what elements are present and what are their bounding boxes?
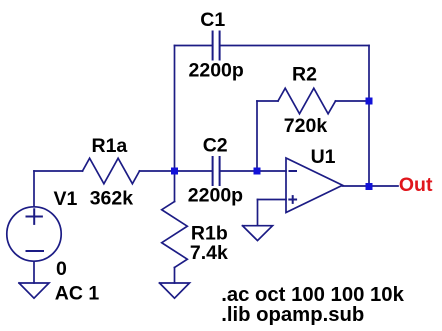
wire R1b bottom lead xyxy=(174,268,176,284)
wire C1 row left xyxy=(175,45,213,47)
ground below R1b xyxy=(160,283,190,298)
svg-text:0: 0 xyxy=(56,258,67,280)
svg-text:C1: C1 xyxy=(200,9,225,31)
wire main row R1a to C2 xyxy=(140,170,213,172)
wire R1b top lead xyxy=(174,171,176,202)
wire left vertical branch to C1 xyxy=(174,46,176,172)
op-amp U1 xyxy=(286,158,343,213)
svg-text:362k: 362k xyxy=(90,188,134,210)
wire R2 row left lead xyxy=(257,100,278,102)
svg-text:U1: U1 xyxy=(311,146,336,168)
svg-text:.ac oct 100 100 10k: .ac oct 100 100 10k xyxy=(221,284,404,306)
svg-text:720k: 720k xyxy=(284,115,328,137)
ground below V1 xyxy=(19,283,49,298)
capacitor C2 xyxy=(213,157,220,185)
node junction J1 (R1a/C1/C2/R1b) xyxy=(171,168,178,175)
wire V1 bottom lead xyxy=(33,262,35,284)
wire right vertical from C1 to output xyxy=(368,46,370,187)
wire R2 row right lead xyxy=(336,100,370,102)
op-amp plus pin mark xyxy=(289,196,296,203)
svg-text:2200p: 2200p xyxy=(188,184,243,206)
node junction J4 (output) xyxy=(366,183,373,190)
V1 minus mark xyxy=(27,250,44,252)
wire op-amp plus input vertical to ground xyxy=(257,200,259,226)
V1 plus mark xyxy=(27,209,42,224)
node junction J3 (R2/right vertical) xyxy=(366,98,373,105)
op-amp minus pin mark xyxy=(290,170,297,172)
svg-text:AC 1: AC 1 xyxy=(55,282,100,304)
wire V1 top lead xyxy=(33,171,35,207)
wire C1 row right xyxy=(220,45,369,47)
resistor R2 xyxy=(278,88,336,114)
wire main row C2 to op-amp minus input xyxy=(220,170,286,172)
wire vertical R2 branch to inverting node xyxy=(256,101,258,171)
capacitor C1 xyxy=(213,32,220,60)
wire output row xyxy=(343,185,399,187)
wire main row V1 to R1a xyxy=(34,170,83,172)
svg-text:R2: R2 xyxy=(292,64,317,86)
resistor R1b xyxy=(162,202,188,268)
svg-text:.lib opamp.sub: .lib opamp.sub xyxy=(221,304,364,326)
svg-text:C2: C2 xyxy=(203,135,228,157)
svg-text:7.4k: 7.4k xyxy=(190,242,228,264)
svg-text:2200p: 2200p xyxy=(189,59,244,81)
voltage source V1 xyxy=(7,207,61,261)
svg-text:V1: V1 xyxy=(54,188,78,210)
svg-text:Out: Out xyxy=(399,174,433,196)
node junction J2 (C2/R2/op-amp minus) xyxy=(254,168,261,175)
ground at op-amp plus input xyxy=(243,226,273,241)
svg-text:R1a: R1a xyxy=(92,135,128,157)
resistor R1a xyxy=(83,158,140,184)
wire op-amp plus input horizontal xyxy=(258,199,287,201)
